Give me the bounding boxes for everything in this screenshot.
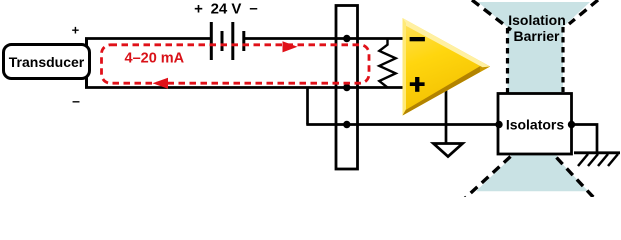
op-amp U1 bottom bevel shadow	[403, 64, 491, 116]
op-amp U1 body	[403, 18, 491, 116]
isolators box	[498, 94, 572, 155]
op-amp inverting input minus	[410, 37, 425, 41]
svg-text:+: +	[72, 23, 80, 38]
battery B1 plate long right	[231, 22, 234, 60]
junction dot top wire	[343, 35, 350, 42]
barrier dashed edge bottom-right diagonal	[557, 158, 596, 200]
svg-text:–: –	[72, 93, 80, 109]
svg-text:Barrier: Barrier	[514, 28, 560, 44]
chassis earth hatch 4	[608, 154, 618, 166]
red loop arrow left (bottom)	[153, 78, 169, 89]
chassis earth hatch 3	[598, 154, 608, 166]
svg-text:–: –	[249, 0, 257, 17]
isolation barrier top funnel fill	[478, 2, 590, 94]
wire: bottom loop wire	[85, 86, 403, 89]
barrier dashed edge bottom-left diagonal	[462, 157, 511, 202]
wire: top loop wire left of battery	[85, 37, 211, 40]
wire: horizontal feed to isolators	[306, 123, 498, 126]
wire: top loop wire right of battery to op-amp	[244, 37, 403, 40]
transducer box	[4, 45, 90, 79]
svg-text:Isolation: Isolation	[508, 12, 566, 28]
red current loop dashed path	[102, 45, 370, 83]
chassis earth ground bar	[574, 151, 620, 154]
junction dot isolators left	[495, 121, 502, 128]
chassis earth hatch 1	[578, 154, 588, 166]
battery B1 plate short	[221, 31, 224, 51]
isolation barrier bottom funnel fill	[477, 154, 587, 191]
wire: op-amp ground drop	[445, 90, 448, 144]
barrier dashed edge top-right diagonal	[569, 0, 598, 24]
chassis earth hatch 2	[588, 154, 598, 166]
red loop arrow right (top)	[283, 41, 298, 52]
wire: isolators right to chassis ground	[572, 125, 598, 154]
wire: transducer right vertical connector	[85, 39, 88, 88]
svg-text:24 V: 24 V	[211, 1, 242, 18]
battery B1 plate short right	[242, 31, 245, 51]
svg-text:Isolators: Isolators	[506, 117, 565, 133]
op-amp U1 left bevel highlight	[403, 18, 407, 116]
svg-text:+: +	[194, 1, 203, 18]
junction dot isolators right	[568, 121, 575, 128]
svg-text:4–20 mA: 4–20 mA	[125, 51, 185, 67]
resistor (loop load)	[379, 39, 395, 88]
battery B1 plate long left	[210, 22, 213, 60]
wire: vertical drop to isolator feed	[306, 87, 309, 125]
op-amp non-inverting input plus	[410, 82, 425, 86]
barrier dashed edge right vertical	[561, 27, 564, 92]
op-amp U1 apex shade	[480, 61, 490, 72]
junction dot isolator feed	[343, 121, 350, 128]
terminal block rectangle	[336, 6, 358, 170]
barrier dashed edge top-left diagonal	[472, 0, 511, 30]
svg-text:Transducer: Transducer	[9, 54, 85, 70]
op-amp U1 top bevel highlight	[403, 18, 491, 67]
signal ground symbol	[434, 144, 463, 157]
junction dot bottom wire	[343, 84, 350, 91]
barrier dashed edge left vertical	[506, 28, 509, 93]
